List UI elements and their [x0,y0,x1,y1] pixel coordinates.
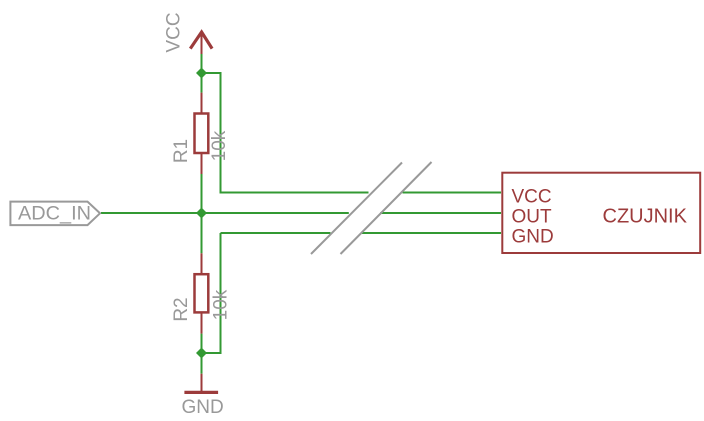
svg-text:VCC: VCC [512,186,552,207]
svg-text:GND: GND [182,397,224,418]
svg-text:OUT: OUT [512,206,553,227]
svg-text:VCC: VCC [164,12,185,52]
svg-text:R1: R1 [171,139,192,163]
svg-text:GND: GND [512,227,554,248]
svg-text:CZUJNIK: CZUJNIK [603,205,688,227]
svg-text:10k: 10k [209,130,230,161]
svg-text:ADC_IN: ADC_IN [18,203,91,224]
svg-text:R2: R2 [171,297,192,321]
svg-text:10k: 10k [211,289,232,320]
